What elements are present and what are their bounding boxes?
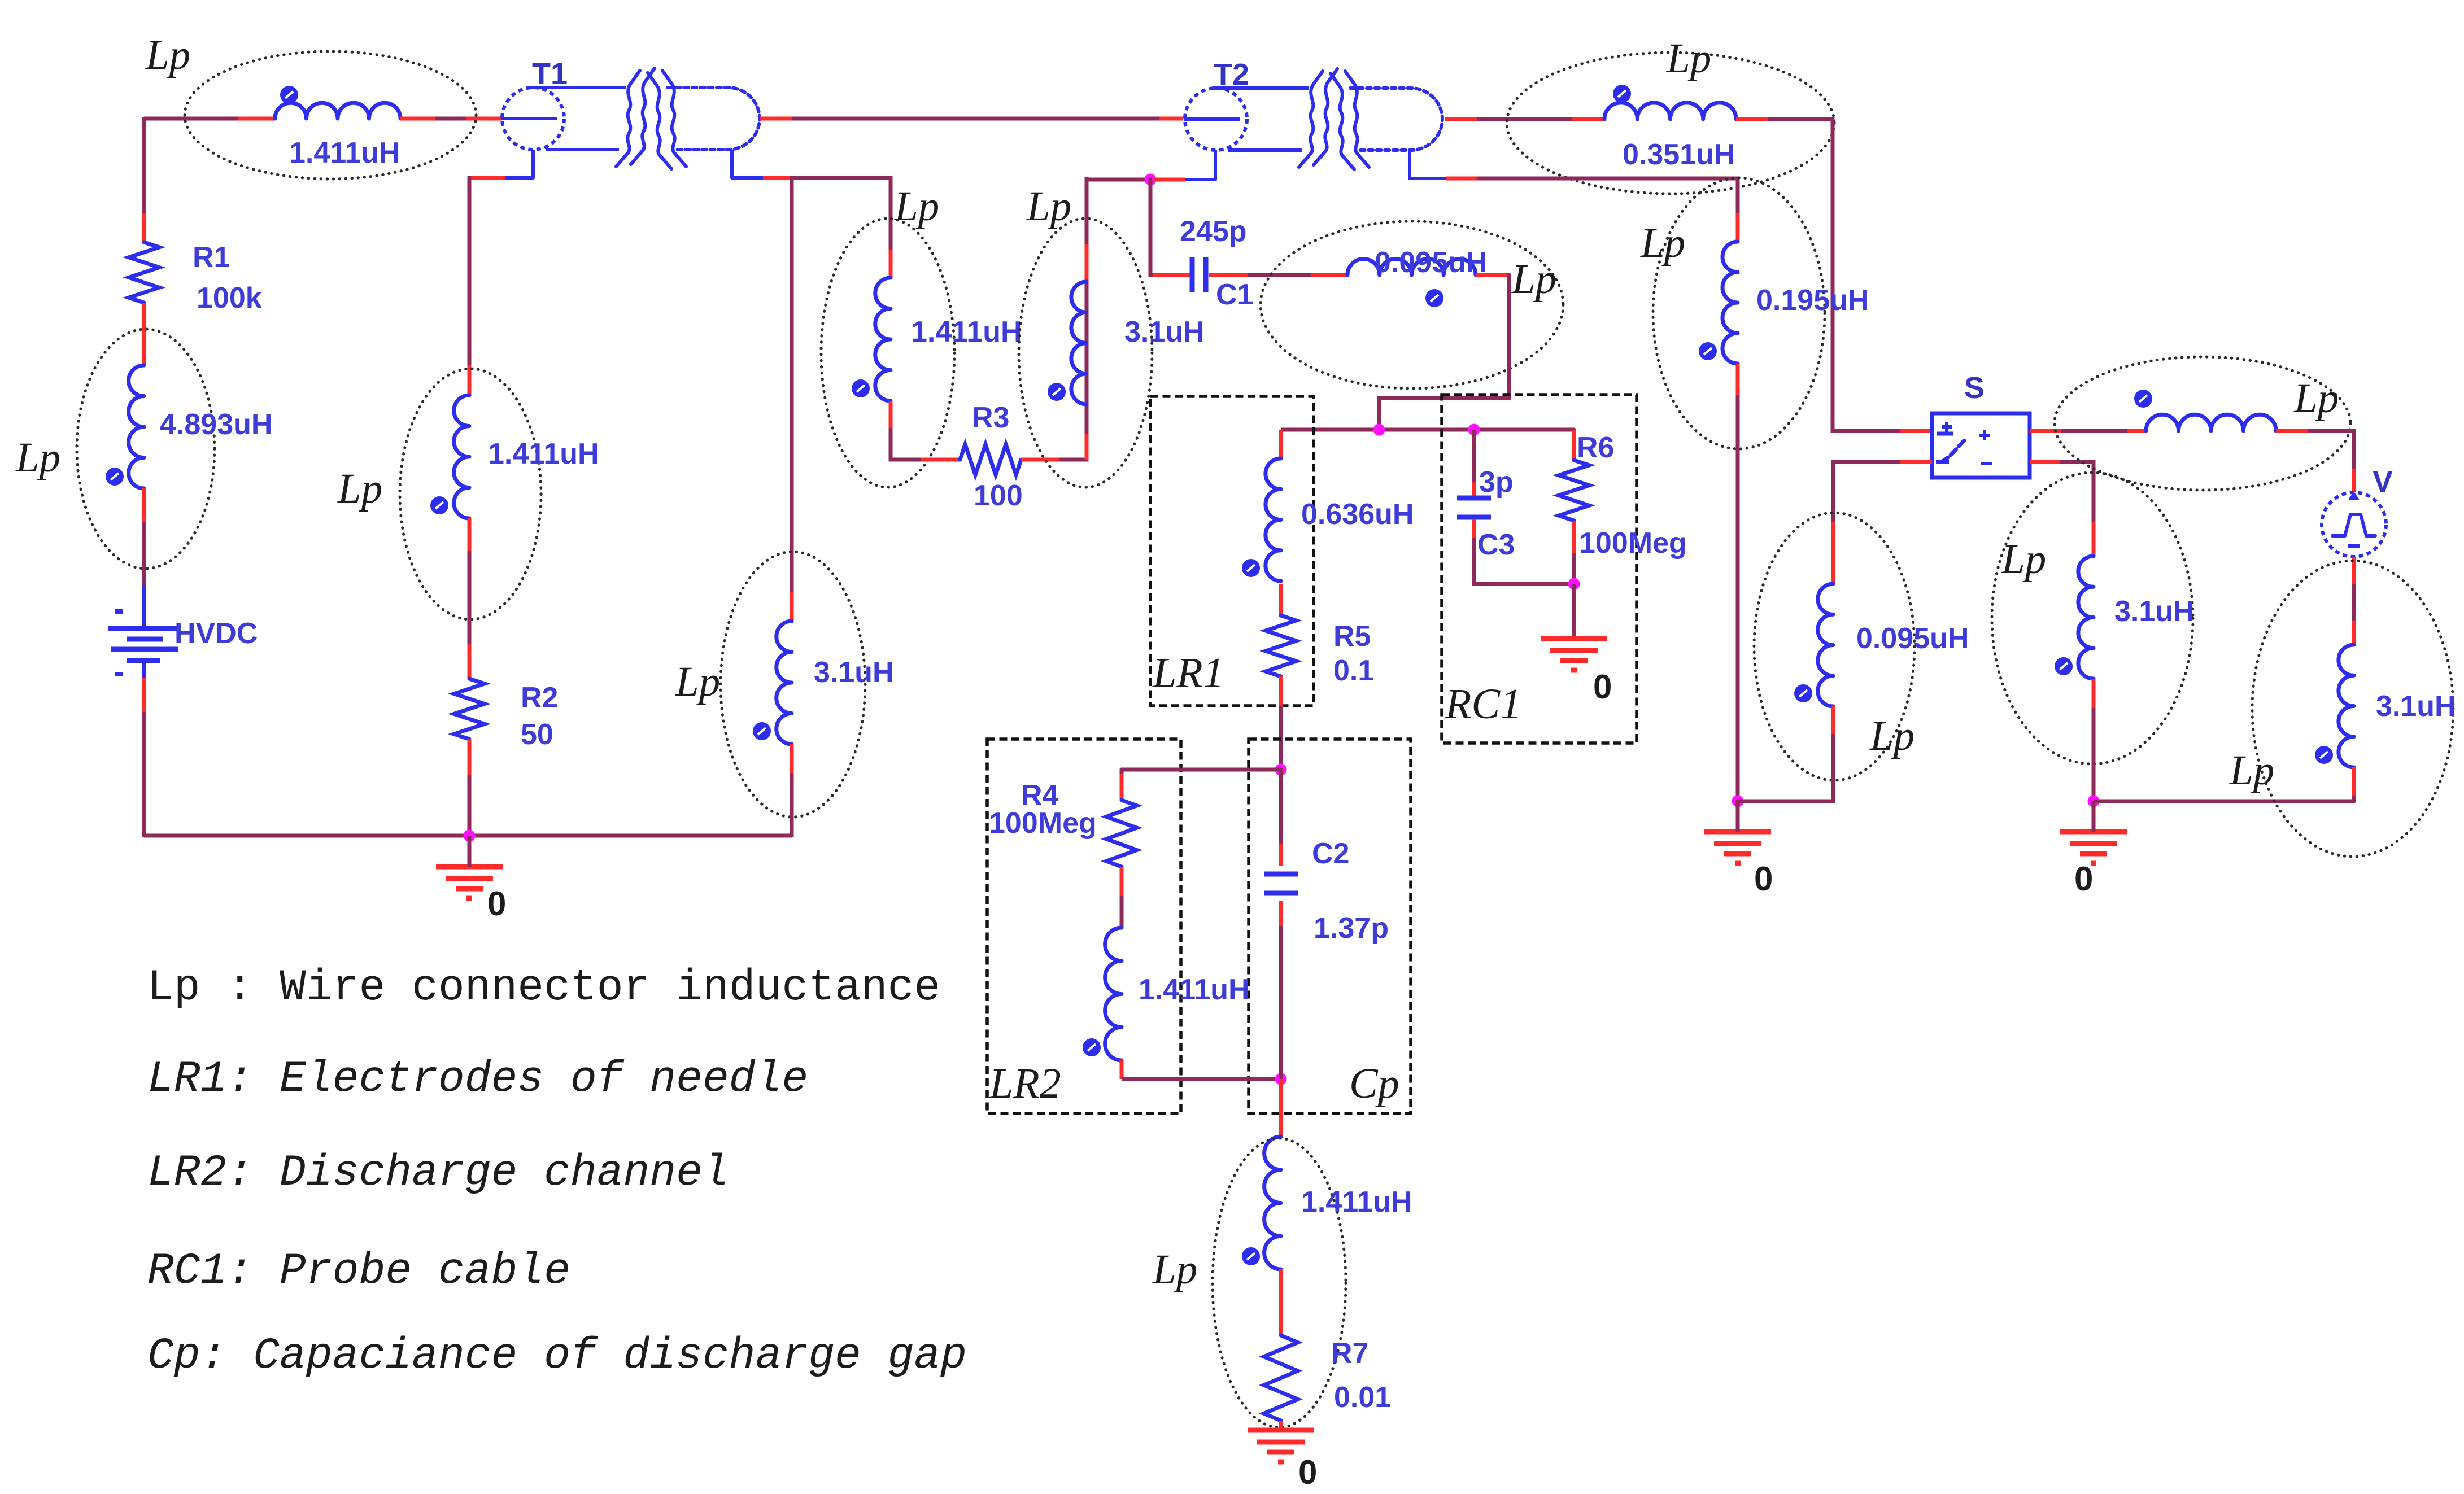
label Lp right-h (2293, 375, 2339, 422)
pin Lp0351 right (1736, 117, 1769, 121)
pin C3 bottom (1472, 519, 1476, 539)
value 3.1uH left (814, 656, 894, 689)
pin Lp3.1mid top (1085, 242, 1089, 282)
dotted ellipse Lp 0.095v (1754, 513, 1914, 780)
pin LpS right (2276, 429, 2310, 433)
label Lp 0.195 (1640, 220, 1685, 267)
pin R1 top (142, 213, 146, 242)
pin LpR2 top (468, 365, 472, 395)
svg-text:Cp: Capaciance of discharge ga: Cp: Capaciance of discharge gap (147, 1331, 967, 1381)
junction bottom rail (464, 830, 476, 842)
inductor Lp 0.351uH (1604, 85, 1736, 119)
pin Lp1 right (400, 117, 435, 121)
svg-text:3.1uH: 3.1uH (814, 656, 894, 689)
label LR2 (989, 1060, 1061, 1107)
svg-text:0: 0 (2074, 860, 2093, 898)
wire Lp1411b to R3 (891, 430, 921, 460)
pin Lp095h right (1476, 273, 1509, 277)
svg-text:Lp: Lp (1511, 256, 1556, 303)
inductor Lp 0.195uH (1699, 242, 1738, 364)
pin T1 bottom-right (763, 176, 792, 180)
T1 bottom-left stem (505, 150, 533, 178)
dotted ellipse Lp bottom (1213, 1138, 1346, 1427)
ground 0 RC1 (1541, 639, 1607, 670)
svg-text:3p: 3p (1479, 466, 1514, 499)
label R2 (521, 682, 558, 714)
pin switch left-top (1900, 429, 1932, 433)
pin Lp3.1mid bottom (1085, 434, 1089, 460)
pin C3 top (1472, 482, 1476, 497)
resistor R7 (1264, 1335, 1298, 1421)
inductor Lp 4.893uH (106, 365, 144, 488)
junction T2 bottom node (1145, 174, 1157, 186)
wire T2bot to Lp0195 (1479, 178, 1738, 213)
wire V branch to rail corner (2352, 797, 2356, 801)
pin R3 left (921, 458, 960, 462)
pin T2 secondary right (1445, 117, 1477, 121)
label RC1 (1445, 680, 1521, 728)
svg-text:C2: C2 (1312, 837, 1349, 870)
svg-text:100Meg: 100Meg (1579, 527, 1687, 560)
pin Lp1411b bottom (889, 401, 893, 430)
svg-text:Lp: Lp (1640, 220, 1685, 267)
pin LpR2 bottom (468, 518, 472, 551)
wire Lp0351 to switch (1769, 119, 1900, 431)
value 100Meg R4 (989, 807, 1097, 840)
pin T1 bottom-left (469, 176, 505, 180)
svg-text:R3: R3 (972, 401, 1009, 434)
pin switch right-bottom (2030, 460, 2061, 464)
dashed box RC1 (1442, 395, 1637, 743)
value 1.37p C2 (1314, 912, 1389, 945)
wire 3.1uH branch vertical (790, 176, 794, 592)
resistor R1 (129, 242, 159, 303)
wire Lp3.1 to rail (790, 773, 794, 837)
svg-text:Lp: Lp (1869, 713, 1914, 759)
pin R2 top (468, 644, 472, 679)
dotted ellipse Lp 4.893uH (77, 329, 215, 569)
label R1 (193, 241, 230, 274)
svg-text:100Meg: 100Meg (989, 807, 1097, 840)
pin C1 left (1153, 273, 1190, 277)
label Lp top-left (145, 32, 190, 78)
wire C3 to R6 bottom (1474, 539, 1574, 584)
label Lp mid-1411 (894, 183, 939, 230)
capacitor C2 1.37p (1264, 874, 1298, 893)
label Lp 3.1 left (675, 658, 720, 705)
value 245p C1 (1180, 215, 1247, 248)
wire switch rb corner (2061, 462, 2094, 522)
ground 0 right (2060, 832, 2127, 863)
legend line LR1 (147, 1055, 808, 1104)
pin T2 primary left (1159, 117, 1183, 121)
junction ground mid (1732, 796, 1744, 807)
wire HVDC to bottom rail (142, 712, 146, 837)
label Lp 0.095v (1869, 713, 1914, 759)
legend line LR2 (147, 1148, 729, 1198)
value 100 R3 (974, 479, 1023, 512)
pin Lp1411b top (889, 250, 893, 278)
dotted ellipse Lp 0.095h (1261, 221, 1563, 388)
label C2 (1312, 837, 1349, 870)
value 3.1uH mid (1124, 316, 1205, 348)
svg-text:3.1uH: 3.1uH (2376, 690, 2456, 723)
wire corner x1402 (792, 176, 891, 180)
transformer T2 (1184, 69, 1442, 169)
pin R5 bottom (1279, 676, 1283, 706)
junction RC1 ground (1568, 578, 1580, 590)
svg-text:Lp: Lp (2293, 375, 2339, 422)
pin Lp1 left (238, 117, 275, 121)
label Cp (1349, 1060, 1399, 1107)
svg-text:0: 0 (1593, 668, 1612, 706)
pin C1 right (1209, 273, 1248, 277)
label Lp 0.095h (1511, 256, 1556, 303)
pin R3 right (1021, 458, 1061, 462)
wire R2 branch vertical (468, 176, 472, 365)
svg-text:1.411uH: 1.411uH (488, 438, 599, 470)
label Lp left (15, 434, 60, 481)
value 1.411uH R2 branch (488, 438, 599, 470)
value 0.095uH v (1856, 622, 1969, 655)
svg-text:Lp: Lp (2001, 536, 2046, 583)
wire Lp1411b branch vertical (889, 176, 893, 250)
label 0 RC1 (1593, 668, 1612, 706)
svg-text:0.351uH: 0.351uH (1623, 138, 1735, 171)
svg-text:V: V (2373, 465, 2393, 499)
dashed box LR1 (1150, 396, 1314, 706)
wire LR2 bottom link (1122, 1077, 1281, 1081)
label Lp bottom (1152, 1246, 1197, 1293)
pin HVDC bottom (142, 678, 146, 712)
label LR1 (1152, 649, 1224, 697)
capacitor C1 245p (1192, 257, 1206, 292)
pin R4 top (1120, 774, 1124, 800)
wire C2 top stem (1279, 770, 1283, 844)
wire Lp31L to rail (2092, 708, 2096, 801)
value 3p C3 (1479, 466, 1514, 499)
wire R4 to LR2 coil (1120, 896, 1124, 928)
svg-text:Lp : Wire connector inductance: Lp : Wire connector inductance (147, 963, 940, 1013)
wire right ground stem (2092, 801, 2096, 832)
svg-text:100k: 100k (197, 282, 262, 314)
label Lp mid-31 (1026, 183, 1071, 230)
pin Lp3.1 bottom (790, 744, 794, 773)
wire C1 to Lp095 (1248, 273, 1311, 277)
dotted ellipse Lp 3.1 right (2252, 561, 2453, 857)
wire rail mid (1738, 800, 1833, 803)
transformer T1 (501, 68, 760, 169)
value 0.636uH (1301, 498, 1414, 531)
label R3 (972, 401, 1009, 434)
pin Lp095v top (1831, 522, 1835, 584)
legend line Lp (147, 963, 940, 1013)
pin Lp31R bottom (2352, 767, 2356, 801)
ground 0 bottom (1248, 1430, 1314, 1462)
resistor R5 (1266, 615, 1296, 676)
label R5 (1333, 620, 1371, 653)
pin Lp31L bottom (2092, 679, 2096, 708)
dotted ellipse Lp 0.195 (1653, 178, 1825, 449)
pin R6 bottom (1572, 521, 1576, 553)
source V pulse (2322, 492, 2386, 557)
pin LpS left (2127, 429, 2146, 433)
svg-text:LR1: LR1 (1152, 649, 1224, 697)
resistor R4 (1106, 800, 1137, 867)
value 0.195uH (1756, 284, 1869, 317)
label C3 (1477, 528, 1515, 561)
svg-text:RC1: RC1 (1445, 680, 1521, 728)
value 50 R2 (521, 718, 553, 751)
label S (1964, 371, 1985, 405)
wire ground stem R2 (468, 836, 472, 867)
svg-text:LR1: Electrodes of needle: LR1: Electrodes of needle (147, 1055, 808, 1104)
inductor Lp 0.095uH vertical (1794, 584, 1833, 706)
pin Lp0195 top (1736, 213, 1740, 242)
svg-text:Lp: Lp (1666, 35, 1711, 82)
wire T1 to T2 (792, 117, 1159, 121)
pin R6 top (1572, 430, 1576, 460)
wire R3 to 3.1 branch (1061, 242, 1087, 460)
T2 bottom-left stem (1185, 150, 1215, 180)
wire R2 to rail (468, 775, 472, 836)
wire Lp095h to node (1379, 275, 1509, 430)
wire rail right (2094, 800, 2354, 803)
label T1 (532, 57, 568, 91)
battery HVDC (108, 586, 180, 678)
svg-text:1.411uH: 1.411uH (1301, 1186, 1412, 1218)
legend line RC1 (147, 1247, 570, 1296)
pin T2 bottom-left (1154, 178, 1185, 182)
pin Lp31R top (2352, 621, 2356, 645)
pin R7 top (1279, 1269, 1283, 1335)
value 3.1uH switch (2114, 595, 2195, 628)
wire C2 bottom stem (1279, 926, 1283, 1079)
label Lp 3.1 switch (2001, 536, 2046, 583)
svg-text:0.095uH: 0.095uH (1375, 246, 1487, 279)
wire R5 to C2 junction (1279, 706, 1283, 770)
svg-text:Lp: Lp (675, 658, 720, 705)
dotted ellipse Lp mid-31 (1019, 219, 1152, 487)
label R7 (1331, 1337, 1368, 1370)
label 0 ground R2 (487, 885, 506, 923)
inductor Lp 0.095uH horizontal (1347, 259, 1476, 307)
svg-text:1.37p: 1.37p (1314, 912, 1389, 945)
dotted ellipse Lp mid-1411 (821, 219, 954, 487)
dashed box LR2 (987, 739, 1181, 1113)
pin Lp095v bottom (1831, 706, 1835, 736)
wire 1924 vertical top (1085, 177, 1089, 244)
wire mid ground stem (1736, 801, 1740, 832)
wire left vertical upper (142, 117, 146, 213)
svg-text:0.636uH: 0.636uH (1301, 498, 1414, 531)
label Lp R2 branch (337, 465, 382, 512)
inductor 1.411uH LR2 (1083, 928, 1122, 1060)
wire top-left horizontal (144, 117, 238, 121)
inductor Lp 3.1uH left (753, 621, 792, 744)
pin R4 bottom (1120, 867, 1124, 896)
svg-text:Cp: Cp (1349, 1060, 1399, 1107)
pin C2 top (1279, 844, 1283, 866)
svg-text:RC1: Probe cable: RC1: Probe cable (147, 1247, 570, 1296)
label T2 (1214, 58, 1249, 91)
svg-text:T1: T1 (532, 57, 568, 91)
svg-text:0: 0 (487, 885, 506, 923)
svg-text:T2: T2 (1214, 58, 1249, 91)
wire T2 to Lp0351 (1477, 117, 1572, 121)
wire LpR2 to R2 (468, 551, 472, 644)
wire Lp0195 to ground rail (1736, 395, 1740, 801)
label Lp 3.1 right (2229, 747, 2274, 794)
svg-text:0.1: 0.1 (1333, 654, 1374, 687)
svg-text:Lp: Lp (145, 32, 190, 78)
svg-text:Lp: Lp (1152, 1246, 1197, 1293)
wire Lp1 to T1 (435, 117, 466, 121)
dotted ellipse Lp right-h (2055, 357, 2350, 490)
svg-text:R1: R1 (193, 241, 230, 274)
resistor R2 (454, 679, 485, 739)
pin Lp3.1 top (790, 592, 794, 621)
wire R4 top link (1122, 768, 1281, 772)
pin T1 primary left (466, 117, 502, 121)
value 0.01 R7 (1334, 1381, 1391, 1414)
pin Lp0195 bottom (1736, 364, 1740, 395)
pin T2 bottom-right (1446, 177, 1479, 181)
wire R6 to junction (1572, 553, 1576, 584)
label Lp 0.351 (1666, 35, 1711, 82)
wire C3 stem (1472, 430, 1476, 482)
wire Lp095v to rail (1738, 736, 1833, 801)
inductor Lp 1.411uH R2 branch (430, 395, 469, 518)
switch S (1932, 413, 2030, 478)
pin V bottom (2352, 557, 2356, 584)
dotted ellipse Lp 3.1 left (721, 552, 865, 817)
value 100k R1 (197, 282, 262, 314)
wire V to Lp31R (2352, 584, 2356, 621)
value 1.411uH mid (911, 316, 1022, 348)
svg-text:R7: R7 (1331, 1337, 1368, 1370)
pin Lp1411bot top (1279, 1079, 1283, 1137)
svg-text:4.893uH: 4.893uH (160, 408, 272, 441)
wire switch bottom left (1833, 460, 1900, 464)
pin Lp0351 left (1572, 117, 1604, 121)
junction C2 top (1275, 764, 1287, 776)
svg-text:Lp: Lp (2229, 747, 2274, 794)
pin C2 bottom (1279, 901, 1283, 926)
wire R4 corner (1120, 770, 1124, 774)
dotted ellipse Lp 0.351 (1507, 53, 1834, 194)
svg-text:50: 50 (521, 718, 553, 751)
capacitor C3 3p (1457, 498, 1491, 517)
pin R5 top (1279, 584, 1283, 615)
pin R2 bottom (468, 739, 472, 775)
value 0.351uH (1623, 138, 1735, 171)
svg-text:R5: R5 (1333, 620, 1371, 653)
value 0.1 R5 (1333, 654, 1374, 687)
wire LpS to V (2310, 431, 2354, 469)
inductor Lp 3.1uH mid (1048, 282, 1087, 404)
inductor 0.636uH LR1 (1242, 458, 1281, 581)
svg-text:1.411uH: 1.411uH (289, 137, 400, 169)
value 1.411uH bottom (1301, 1186, 1412, 1218)
inductor Lp 1.411uH top-left (275, 86, 400, 119)
dotted ellipse Lp top-left (185, 51, 476, 179)
T2 bottom-right stem (1410, 151, 1446, 178)
pin switch left-bottom (1900, 460, 1932, 464)
dashed box Cp (1249, 739, 1411, 1113)
value 100Meg R6 (1579, 527, 1687, 560)
inductor Lp 3.1uH right (2315, 645, 2354, 767)
junction C2 bottom (1275, 1073, 1287, 1085)
svg-text:3.1uH: 3.1uH (1124, 316, 1205, 348)
wire 3.1mid to junction (1087, 178, 1150, 182)
svg-text:1.411uH: 1.411uH (1139, 973, 1250, 1006)
value 3.1uH right (2376, 690, 2456, 723)
value 1.411uH LR2 (1139, 973, 1250, 1006)
label 0 right ground (2074, 860, 2093, 898)
pin Lp095h left (1311, 273, 1347, 277)
junction node RC1 (1468, 424, 1480, 436)
svg-text:245p: 245p (1180, 215, 1247, 248)
wire junction down to C1 (1150, 180, 1153, 275)
inductor Lp 1.411uH mid (852, 278, 891, 401)
svg-text:R6: R6 (1577, 431, 1614, 464)
wire 0.095v branch (1831, 460, 1835, 522)
svg-text:LR2: LR2 (989, 1060, 1061, 1107)
svg-text:0: 0 (1754, 860, 1773, 898)
junction right ground (2088, 796, 2100, 807)
pin Lp0636 top (1279, 430, 1283, 458)
svg-text:S: S (1964, 371, 1985, 405)
svg-text:Lp: Lp (337, 465, 382, 512)
wire switch to LpS (2061, 429, 2127, 433)
svg-text:C1: C1 (1216, 278, 1253, 311)
svg-text:3.1uH: 3.1uH (2114, 595, 2195, 628)
svg-text:C3: C3 (1477, 528, 1515, 561)
pin Lp4.893 bottom (142, 488, 146, 522)
value 0.095uH h (1375, 246, 1487, 279)
inductor Lp horizontal right (2134, 390, 2276, 431)
pin T1 secondary right (760, 117, 792, 121)
dotted ellipse Lp 3.1 switch (1992, 473, 2193, 764)
value 1.411uH top-left (289, 137, 400, 169)
resistor R3 (960, 444, 1021, 475)
label R4 (1021, 779, 1059, 812)
svg-text:0: 0 (1298, 1453, 1317, 1491)
pin LR2 coil bottom (1120, 1060, 1124, 1079)
svg-text:R2: R2 (521, 682, 558, 714)
pin R1 bottom (142, 303, 146, 365)
wire node horizontal (1281, 428, 1574, 432)
pin switch right-top (2030, 429, 2061, 433)
dotted ellipse Lp R2 (400, 369, 541, 619)
wire RC1 ground stem (1572, 584, 1576, 639)
svg-text:Lp: Lp (1026, 183, 1071, 230)
svg-text:100: 100 (974, 479, 1023, 512)
svg-text:HVDC: HVDC (175, 617, 258, 650)
svg-text:Lp: Lp (15, 434, 60, 481)
junction node from Lp095 (1373, 424, 1385, 436)
legend line Cp (147, 1331, 967, 1381)
svg-text:LR2: Discharge channel: LR2: Discharge channel (147, 1148, 729, 1198)
inductor Lp 1.411uH bottom (1242, 1137, 1281, 1269)
wire to HVDC battery (142, 522, 146, 587)
label HVDC (175, 617, 258, 650)
resistor R6 (1559, 460, 1589, 521)
pin Lp31L top (2092, 522, 2096, 556)
inductor Lp 3.1uH switch-left (2055, 556, 2094, 679)
svg-text:Lp: Lp (894, 183, 939, 230)
